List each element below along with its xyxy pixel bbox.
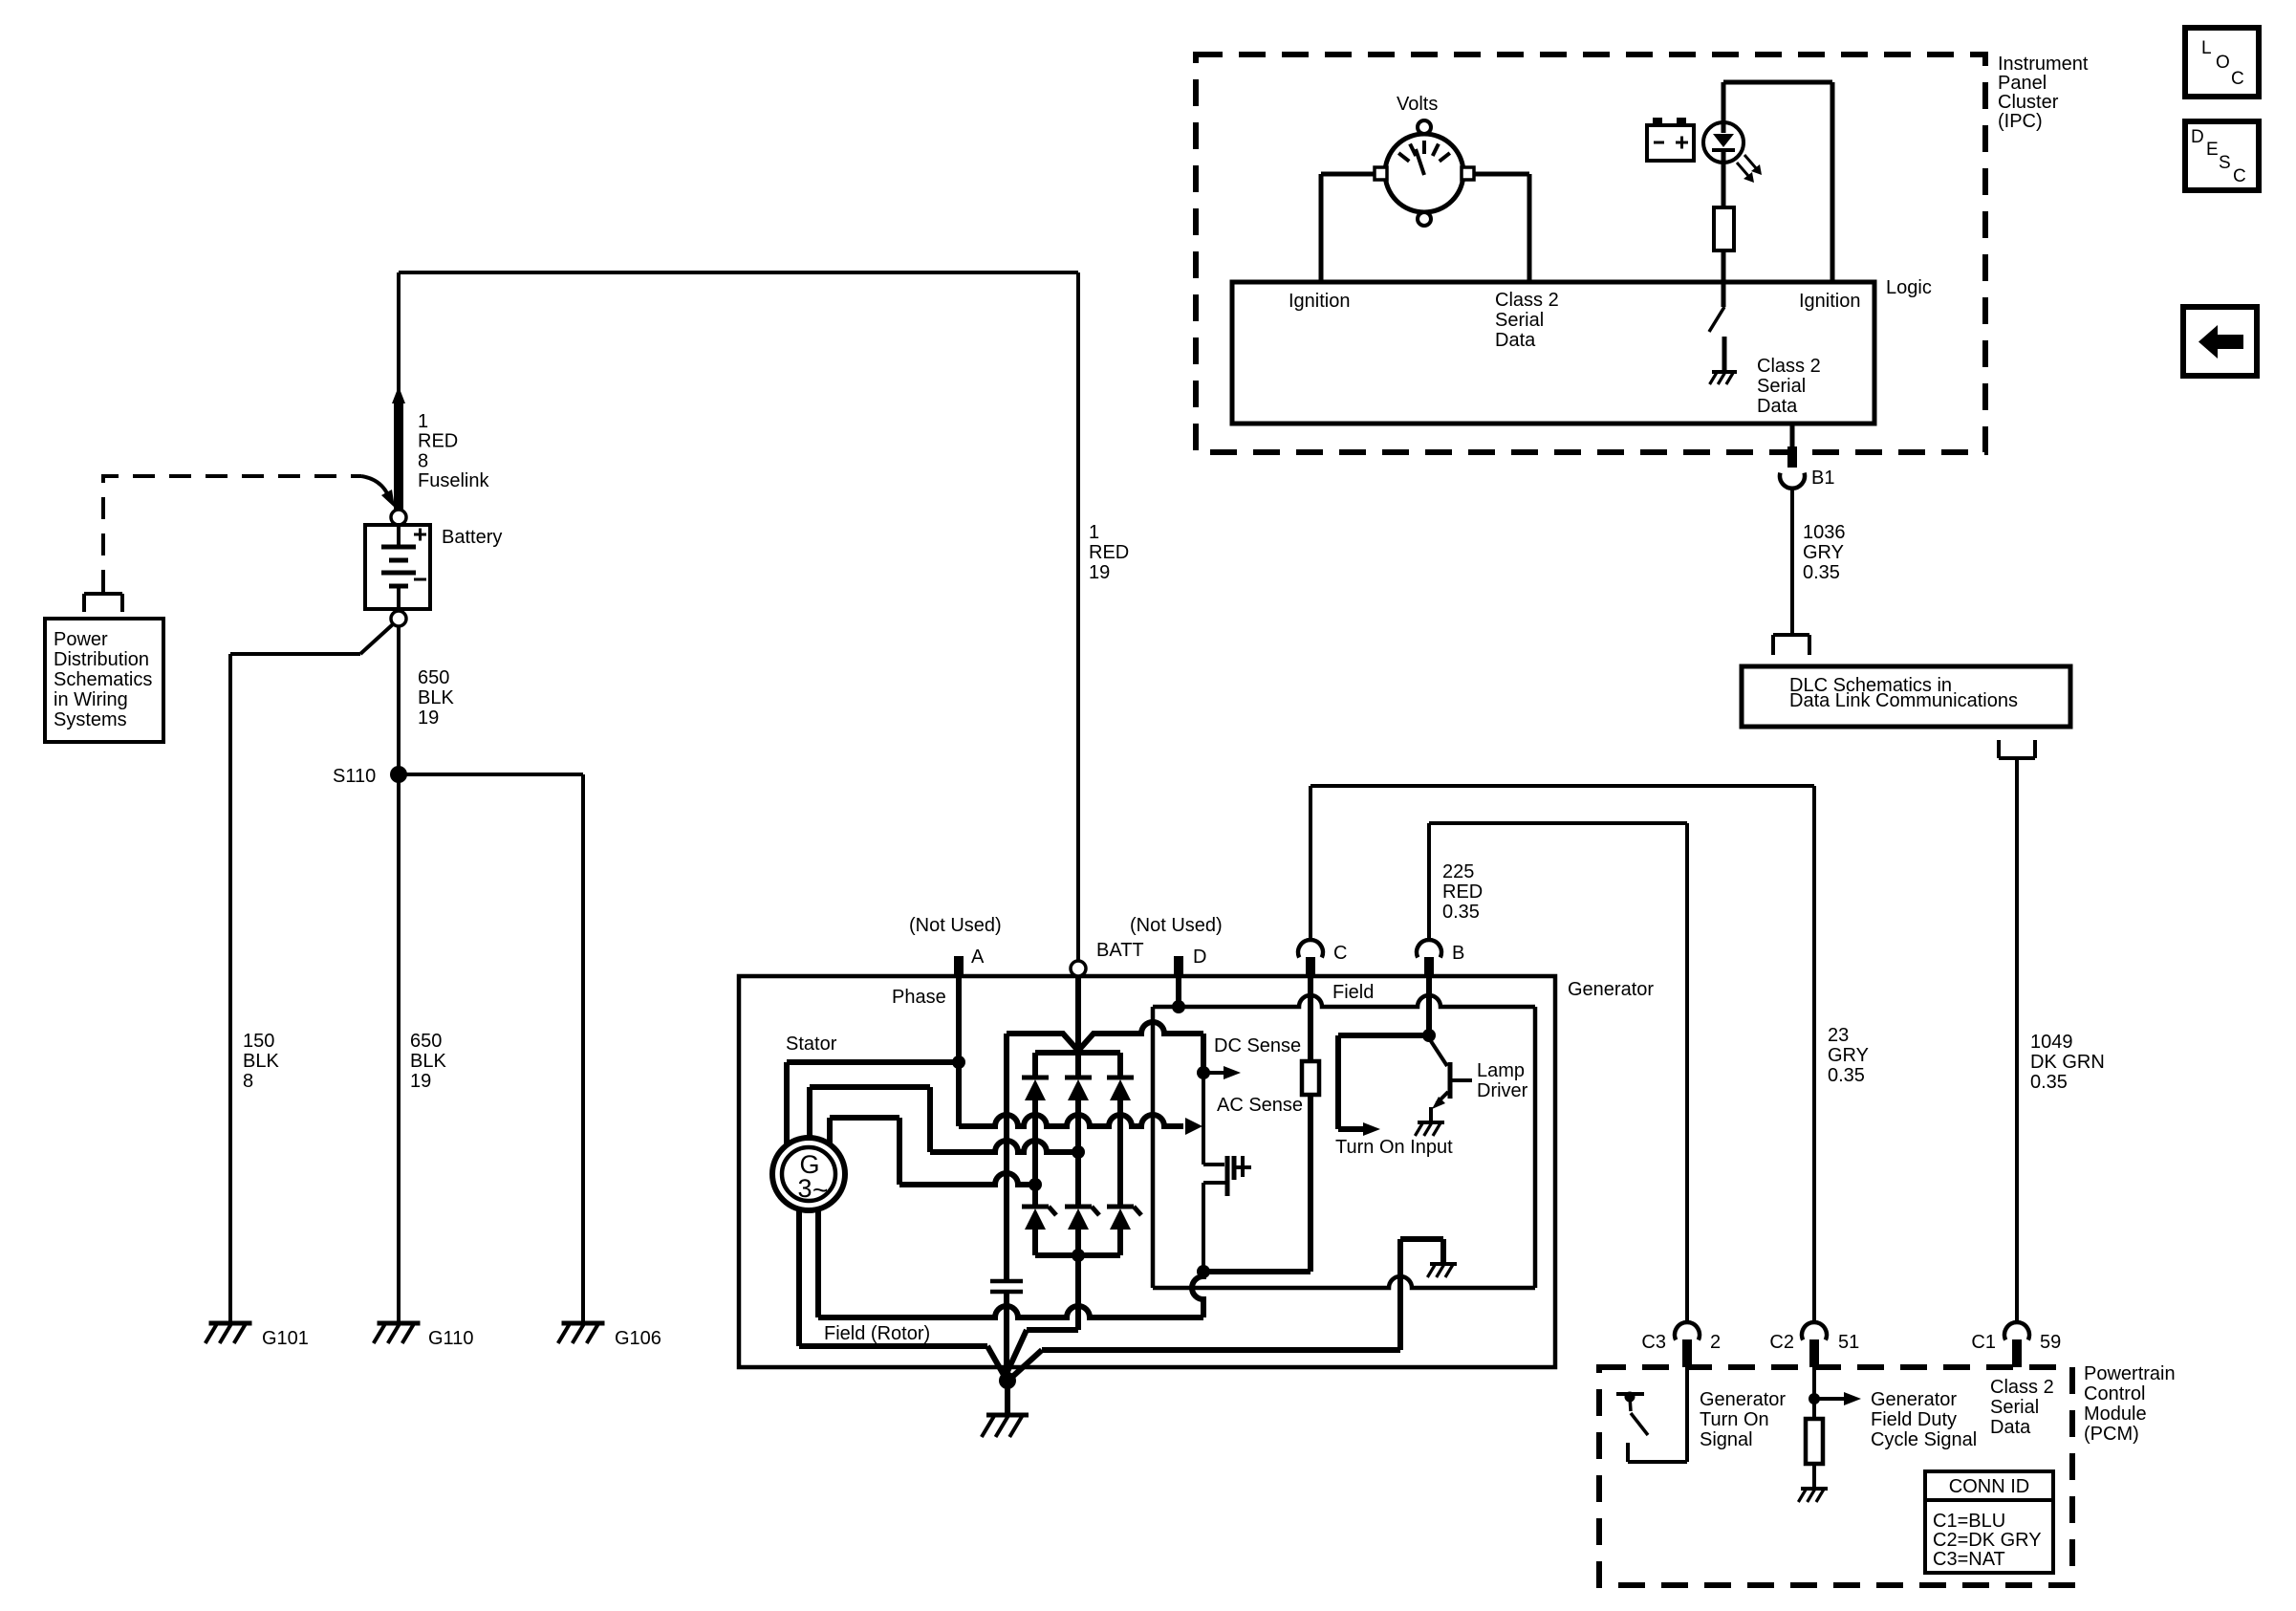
wire to case ground from regulator: [1011, 1350, 1400, 1378]
ground G110: [374, 1323, 421, 1343]
svg-text:Panel: Panel: [1998, 73, 2047, 94]
svg-text:C: C: [2231, 69, 2244, 89]
svg-text:Serial: Serial: [1990, 1397, 2039, 1418]
regulator gate symbol: [1227, 1156, 1251, 1196]
svg-text:DC Sense: DC Sense: [1214, 1035, 1301, 1056]
svg-text:Generator: Generator: [1700, 1389, 1786, 1410]
label Field: [1332, 982, 1374, 1003]
terminal B1: [1780, 468, 1834, 489]
stator winding wire 1: [787, 1062, 956, 1145]
connector bracket DLC bottom: [1999, 740, 2035, 758]
label Ignition left: [1289, 291, 1351, 312]
label Volts: [1397, 94, 1438, 115]
connector circle battery negative: [391, 611, 406, 626]
svg-text:59: 59: [2040, 1332, 2061, 1353]
ground regulator internal: [1427, 1264, 1457, 1277]
svg-text:Lamp: Lamp: [1477, 1060, 1525, 1081]
rectifier inner bus: [1035, 1050, 1120, 1056]
label AC Sense: [1217, 1095, 1303, 1116]
svg-text:C2=DK GRY: C2=DK GRY: [1933, 1530, 2042, 1551]
turn on input arrow: [1338, 1035, 1429, 1136]
terminal BATT connector circle: [1071, 961, 1086, 976]
wire C2 into PCM: [1812, 1367, 1816, 1399]
label Ignition right: [1799, 291, 1861, 312]
svg-text:1: 1: [1089, 522, 1099, 543]
button back arrow: [2183, 307, 2257, 376]
junction stator wire 1 to phase line: [952, 1056, 965, 1069]
svg-text:650: 650: [410, 1031, 442, 1052]
stator winding wire 2: [810, 1087, 1074, 1152]
label Class 2 Serial Data right: [1757, 356, 1821, 417]
stator winding wire 3: [830, 1118, 1031, 1185]
svg-text:51: 51: [1838, 1332, 1859, 1353]
field rotor wire right: [815, 1209, 821, 1317]
svg-text:8: 8: [243, 1071, 253, 1092]
svg-text:BATT: BATT: [1096, 940, 1144, 961]
connector bracket power distribution: [84, 594, 122, 612]
svg-text:Class 2: Class 2: [1495, 290, 1559, 311]
svg-text:Power: Power: [54, 629, 108, 650]
svg-text:Field: Field: [1332, 982, 1374, 1003]
svg-text:G106: G106: [615, 1328, 661, 1349]
svg-text:Serial: Serial: [1757, 376, 1806, 397]
label Phase: [892, 987, 946, 1008]
label 1 RED 19: [1089, 522, 1129, 583]
wire 650 BLK 19 battery negative down: [397, 626, 401, 1321]
junction case ground: [999, 1372, 1016, 1389]
instrument panel cluster dashed box: [1196, 54, 1985, 452]
switch generator turn on (PCM): [1616, 1367, 1687, 1462]
svg-text:Class 2: Class 2: [1990, 1377, 2054, 1398]
svg-text:0.35: 0.35: [2030, 1072, 2068, 1093]
label 1049 DK GRN 0.35: [2030, 1032, 2105, 1093]
svg-text:23: 23: [1828, 1025, 1849, 1046]
ground IPC switch: [1710, 372, 1737, 384]
svg-text:Driver: Driver: [1477, 1080, 1528, 1101]
DLC reference box: [1742, 666, 2070, 727]
terminal C1 pin 59: [1971, 1322, 2061, 1367]
svg-text:Battery: Battery: [442, 527, 502, 548]
svg-text:CONN ID: CONN ID: [1949, 1476, 2029, 1497]
label DC Sense: [1214, 1035, 1301, 1056]
wire 1036 GRY 0.35: [1790, 488, 1794, 633]
label 150 BLK 8: [243, 1031, 279, 1092]
svg-text:Cycle Signal: Cycle Signal: [1871, 1429, 1977, 1450]
svg-text:Cluster: Cluster: [1998, 92, 2059, 113]
svg-text:8: 8: [418, 450, 428, 471]
junction bottom bus to ground path: [1072, 1249, 1085, 1262]
wire middle column to case ground: [1005, 1255, 1078, 1378]
svg-text:in Wiring: in Wiring: [54, 689, 128, 710]
svg-text:0.35: 0.35: [1442, 902, 1480, 923]
wire LED top to logic box: [1723, 82, 1832, 282]
label 1 RED 8 Fuselink: [418, 411, 489, 491]
resistor PCM field duty: [1806, 1399, 1823, 1488]
wire field drive to rotor: [818, 1272, 1203, 1317]
wire DC sense vertical: [1201, 1034, 1206, 1073]
LED light arrows: [1737, 155, 1762, 183]
svg-text:O: O: [2216, 53, 2230, 73]
svg-text:Module: Module: [2084, 1404, 2147, 1425]
label G106: [615, 1328, 661, 1349]
IPC logic box: [1232, 282, 1874, 424]
wire S110 to G106: [399, 774, 583, 1321]
label Lamp Driver: [1477, 1060, 1528, 1101]
arrow generator field duty cycle: [1814, 1392, 1861, 1405]
svg-text:Fuselink: Fuselink: [418, 470, 489, 491]
svg-text:Data Link Communications: Data Link Communications: [1789, 690, 2018, 711]
svg-text:(IPC): (IPC): [1998, 111, 2043, 132]
svg-text:BLK: BLK: [418, 687, 454, 708]
junction lamp driver collector: [1422, 1029, 1436, 1042]
svg-text:Turn On: Turn On: [1700, 1409, 1769, 1430]
svg-text:C: C: [2233, 166, 2246, 186]
label BATT: [1096, 940, 1144, 961]
rectifier bottom bus: [1035, 1252, 1120, 1258]
volts gauge: [1375, 120, 1474, 226]
svg-text:1049: 1049: [2030, 1032, 2073, 1053]
svg-text:C2: C2: [1769, 1332, 1794, 1353]
connector bracket DLC top: [1773, 635, 1809, 655]
svg-text:B: B: [1452, 943, 1464, 964]
svg-text:Ignition: Ignition: [1799, 291, 1861, 312]
svg-text:C1=BLU: C1=BLU: [1933, 1511, 2005, 1532]
label Generator Field Duty Cycle Signal: [1871, 1389, 1977, 1450]
wire volts gauge left to Ignition: [1321, 174, 1375, 282]
svg-text:GRY: GRY: [1828, 1045, 1869, 1066]
svg-text:Distribution: Distribution: [54, 649, 149, 670]
terminal C2 pin 51: [1769, 1322, 1859, 1367]
label 23 GRY 0.35: [1828, 1025, 1869, 1086]
svg-text:D: D: [1193, 947, 1206, 968]
label 1036 GRY 0.35: [1803, 522, 1846, 583]
svg-text:Data: Data: [1757, 396, 1798, 417]
label Generator: [1568, 979, 1654, 1000]
svg-text:D: D: [2191, 127, 2204, 147]
svg-text:GRY: GRY: [1803, 542, 1844, 563]
battery Battery: [365, 525, 430, 609]
svg-text:Ignition: Ignition: [1289, 291, 1351, 312]
terminal A (Not Used): [909, 915, 1002, 976]
volts gauge ticks and needle: [1398, 141, 1450, 175]
svg-text:G110: G110: [428, 1328, 473, 1349]
transistor lamp driver: [1429, 1038, 1472, 1121]
wire B terminal into regulator: [1426, 976, 1432, 1035]
label 225 RED 0.35: [1442, 861, 1483, 923]
svg-text:Data: Data: [1990, 1417, 2031, 1438]
label Field (Rotor): [824, 1323, 930, 1344]
svg-text:RED: RED: [418, 431, 458, 452]
svg-text:Instrument: Instrument: [1998, 54, 2089, 75]
regulator gate input wire: [1203, 1073, 1224, 1165]
svg-text:Turn On Input: Turn On Input: [1335, 1137, 1453, 1158]
wire regulator internal ground link: [1400, 1239, 1443, 1350]
svg-text:Signal: Signal: [1700, 1429, 1753, 1450]
svg-text:Stator: Stator: [786, 1034, 837, 1055]
svg-text:1: 1: [418, 411, 428, 432]
terminal D (Not Used): [1130, 915, 1223, 976]
powertrain control module dashed box: [1599, 1367, 2072, 1585]
svg-text:3: 3: [797, 1174, 812, 1203]
svg-text:L: L: [2201, 38, 2212, 58]
power distribution reference box: [45, 619, 163, 742]
wire class 2 serial data out of IPC: [1790, 424, 1795, 468]
label Battery: [442, 527, 502, 548]
field rotor wire left: [799, 1209, 1004, 1375]
label Generator Turn On Signal: [1700, 1389, 1786, 1450]
svg-text:(Not Used): (Not Used): [1130, 915, 1223, 936]
svg-text:19: 19: [410, 1071, 431, 1092]
label Powertrain Control Module (PCM): [2084, 1363, 2176, 1445]
ground G106: [558, 1323, 605, 1343]
svg-text:Data: Data: [1495, 330, 1536, 351]
svg-text:Powertrain: Powertrain: [2084, 1363, 2176, 1384]
svg-text:225: 225: [1442, 861, 1474, 882]
svg-text:S110: S110: [333, 766, 376, 787]
svg-text:(Not Used): (Not Used): [909, 915, 1002, 936]
svg-text:A: A: [971, 947, 985, 968]
rectifier top rail: [1007, 1022, 1203, 1279]
svg-text:150: 150: [243, 1031, 274, 1052]
zener diode 1: [1022, 1207, 1056, 1255]
label 650 BLK 19 second: [410, 1031, 446, 1092]
rectifier diode 3: [1107, 1053, 1134, 1207]
label Class 2 Serial Data PCM: [1990, 1377, 2054, 1438]
zener diode 2: [1065, 1207, 1099, 1255]
svg-text:S: S: [2219, 153, 2231, 173]
resistor field (C line): [1203, 976, 1319, 1272]
svg-text:E: E: [2206, 140, 2219, 160]
svg-text:B1: B1: [1811, 468, 1834, 489]
svg-text:AC Sense: AC Sense: [1217, 1095, 1303, 1116]
terminal C: [1298, 940, 1347, 976]
generator box: [739, 976, 1555, 1367]
svg-text:Schematics: Schematics: [54, 669, 152, 690]
svg-text:0.35: 0.35: [1803, 562, 1840, 583]
ground generator case: [982, 1381, 1029, 1437]
ground PCM resistor: [1798, 1489, 1828, 1502]
label Stator: [786, 1034, 837, 1055]
rectifier diode 2: [1065, 1053, 1092, 1152]
label Instrument Panel Cluster (IPC): [1998, 54, 2089, 132]
label 650 BLK 19: [418, 667, 454, 729]
svg-text:Serial: Serial: [1495, 310, 1544, 331]
svg-text:2: 2: [1710, 1332, 1721, 1353]
junction DC sense: [1197, 1066, 1210, 1079]
svg-text:Field Duty: Field Duty: [1871, 1409, 1957, 1430]
label G110: [428, 1328, 473, 1349]
wire 23 GRY 0.35 generator C to PCM C2: [1310, 786, 1814, 1322]
svg-text:RED: RED: [1089, 542, 1129, 563]
svg-text:19: 19: [1089, 562, 1110, 583]
svg-text:C: C: [1333, 943, 1347, 964]
label Class 2 Serial Data left: [1495, 290, 1559, 351]
ground G101: [206, 1323, 252, 1343]
label Turn On Input: [1335, 1137, 1453, 1158]
svg-text:Field (Rotor): Field (Rotor): [824, 1323, 930, 1344]
svg-text:BLK: BLK: [410, 1051, 446, 1072]
svg-text:(PCM): (PCM): [2084, 1424, 2139, 1445]
wire volts gauge right to Class 2: [1474, 174, 1529, 282]
junction field drive: [1197, 1265, 1210, 1278]
fusible link (1 RED 8 Fuselink): [392, 386, 405, 510]
svg-text:650: 650: [418, 667, 449, 688]
svg-text:DK GRN: DK GRN: [2030, 1052, 2105, 1073]
junction C2 signal: [1809, 1393, 1820, 1404]
svg-text:BLK: BLK: [243, 1051, 279, 1072]
wire BATT into bridge: [1075, 976, 1081, 1051]
rectifier diode column continuations: [1035, 1152, 1078, 1207]
wire 225 RED 0.35 generator B to PCM C3: [1429, 823, 1687, 1322]
svg-text:RED: RED: [1442, 882, 1483, 903]
label Logic: [1886, 277, 1932, 298]
terminal B: [1417, 940, 1464, 976]
switch IPC class 2: [1709, 307, 1724, 371]
LED charge indicator: [1703, 82, 1744, 207]
svg-text:Control: Control: [2084, 1383, 2145, 1404]
svg-text:Class 2: Class 2: [1757, 356, 1821, 377]
wire phase A line with AC Sense arrow: [959, 976, 1202, 1135]
svg-text:1036: 1036: [1803, 522, 1846, 543]
wire battery feed top horizontal 1 RED: [399, 272, 1078, 397]
wire battery negative to G101 branch: [230, 624, 393, 1321]
junction stator wire 2 to middle diode column: [1072, 1145, 1085, 1159]
wire resistor to switch: [1722, 250, 1726, 307]
svg-text:C1: C1: [1971, 1332, 1996, 1353]
wire 1049 DK GRN 0.35: [2015, 758, 2019, 1322]
zener diode 3: [1107, 1207, 1141, 1255]
svg-text:Phase: Phase: [892, 987, 946, 1008]
rectifier diode 1: [1022, 1053, 1049, 1185]
voltage regulator inner box: [1153, 995, 1535, 1288]
DC Sense arrow: [1203, 1066, 1241, 1079]
svg-text:Logic: Logic: [1886, 277, 1932, 298]
svg-text:Systems: Systems: [54, 709, 127, 730]
generator stator circle G 3~: [772, 1138, 845, 1210]
svg-text:C3: C3: [1641, 1332, 1666, 1353]
button DESC: [2185, 121, 2259, 190]
terminal C3 pin 2: [1641, 1322, 1721, 1367]
junction stator wire 3 to left diode column: [1029, 1178, 1042, 1191]
ground lamp driver emitter: [1415, 1122, 1444, 1136]
CONN ID table: [1925, 1471, 2053, 1573]
svg-text:19: 19: [418, 708, 439, 729]
dashed wire to power distribution: [103, 476, 395, 592]
regulator gate lower wire: [1203, 1183, 1227, 1272]
battery icon IPC: [1647, 118, 1694, 161]
svg-text:G101: G101: [262, 1328, 309, 1349]
svg-text:0.35: 0.35: [1828, 1065, 1865, 1086]
capacitor noise suppression: [990, 1281, 1023, 1377]
svg-text:Volts: Volts: [1397, 94, 1438, 115]
button LOC: [2185, 28, 2259, 97]
label G101: [262, 1328, 309, 1349]
connector circle battery positive: [391, 510, 406, 525]
svg-text:~: ~: [812, 1175, 828, 1205]
splice S110: [390, 766, 407, 783]
junction D terminal to regulator box: [1172, 976, 1185, 1013]
svg-text:C3=NAT: C3=NAT: [1933, 1549, 2005, 1570]
svg-text:Generator: Generator: [1568, 979, 1654, 1000]
resistor IPC indicator: [1714, 207, 1734, 250]
wire 1 RED 19: [1076, 272, 1080, 961]
label S110: [333, 766, 376, 787]
svg-text:Generator: Generator: [1871, 1389, 1957, 1410]
